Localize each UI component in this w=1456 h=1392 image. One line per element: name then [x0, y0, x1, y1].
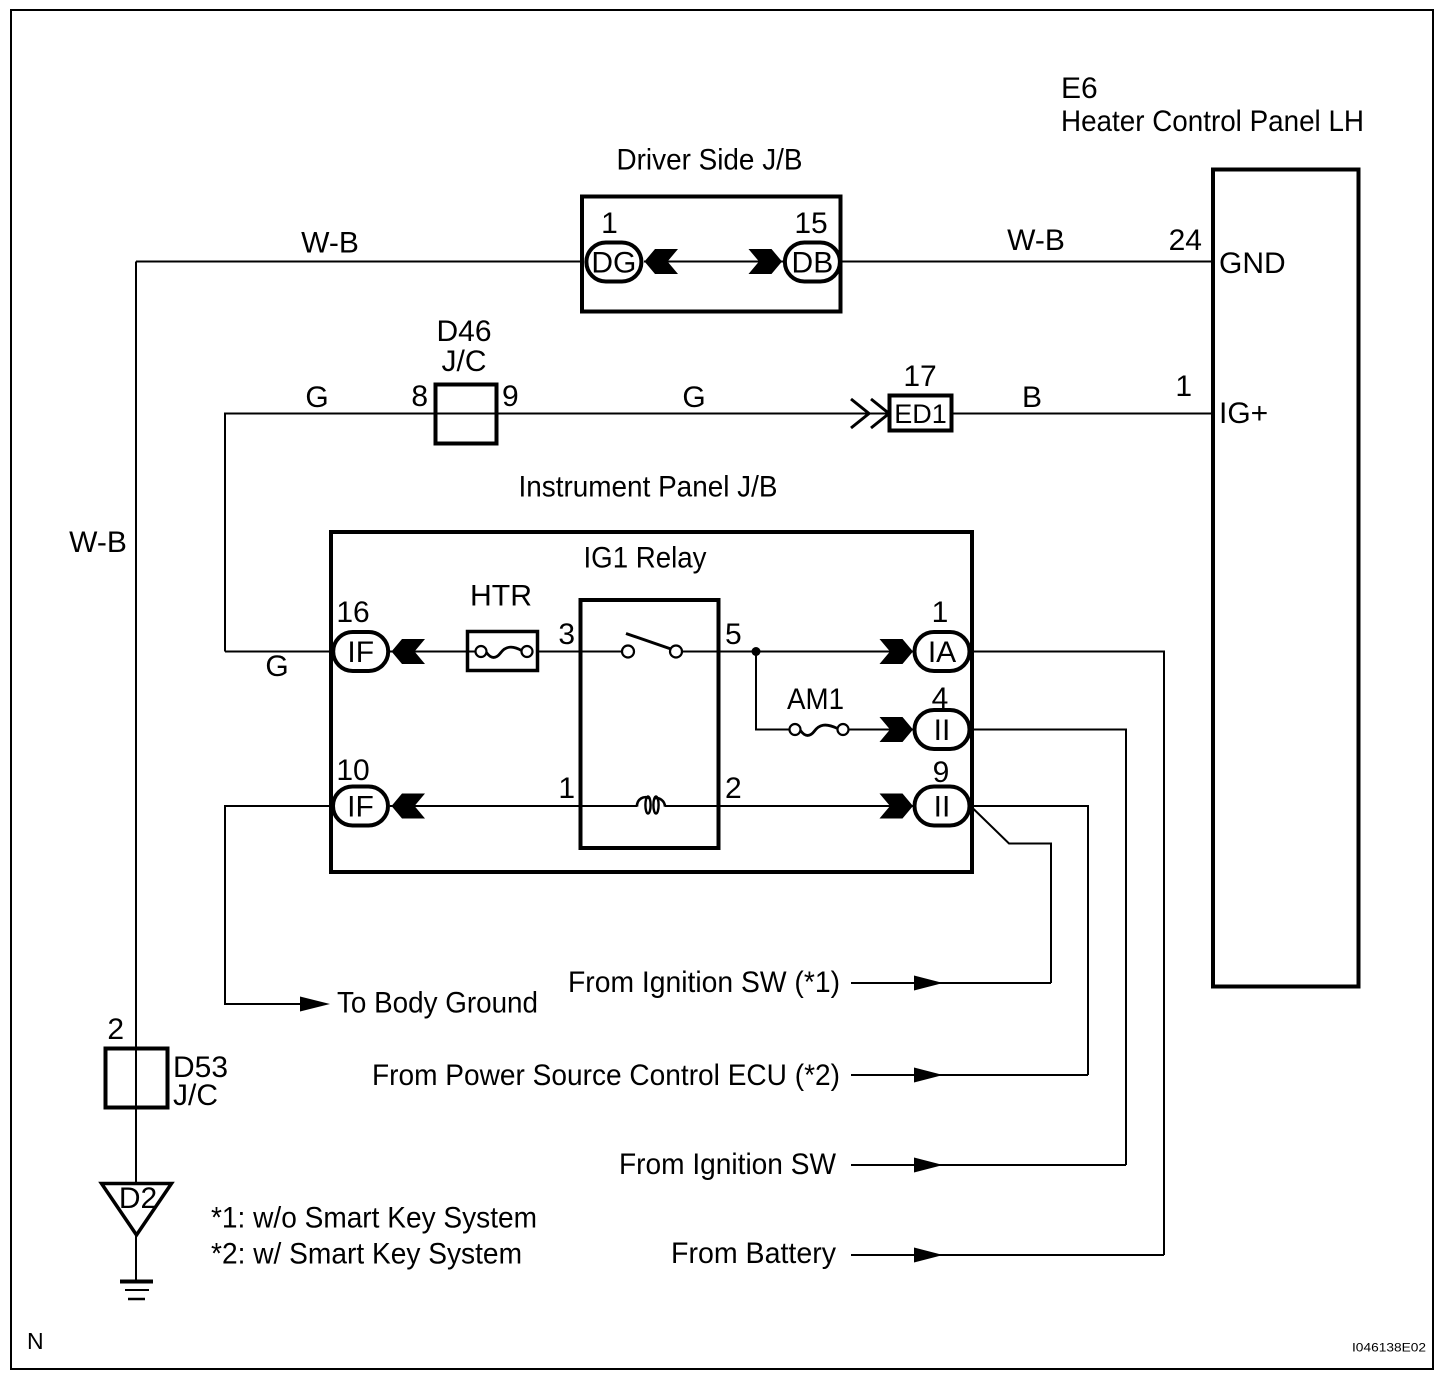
svg-text:3: 3: [558, 618, 575, 651]
svg-text:IG1 Relay: IG1 Relay: [584, 542, 707, 575]
svg-text:5: 5: [725, 618, 742, 651]
svg-text:10: 10: [336, 754, 369, 787]
svg-text:Driver Side J/B: Driver Side J/B: [617, 144, 803, 177]
svg-text:1: 1: [932, 596, 949, 629]
arrow chevron into IF16 (pointing left): [392, 639, 426, 664]
wire II9 to From Power Source Control ECU vertical: [970, 806, 1088, 1075]
wire From Ignition SW (*1) row: [851, 982, 1051, 984]
splice double chevron before ED1: [851, 399, 869, 428]
svg-text:II: II: [934, 791, 951, 824]
svg-text:Heater Control Panel LH: Heater Control Panel LH: [1061, 105, 1364, 138]
svg-text:G: G: [305, 381, 328, 414]
svg-text:G: G: [682, 381, 705, 414]
arrow From Power Source Control ECU (*2): [914, 1068, 943, 1083]
arrow chevron into IF10 (pointing left): [392, 794, 426, 819]
component Heater Control Panel LH box: [1213, 170, 1359, 987]
svg-text:GND: GND: [1219, 247, 1286, 280]
svg-text:G: G: [265, 650, 288, 683]
svg-text:From Ignition SW: From Ignition SW: [619, 1148, 837, 1181]
svg-text:D46: D46: [436, 315, 491, 348]
junction dot node: [752, 647, 761, 656]
wire D2 to ground: [135, 1235, 137, 1281]
svg-text:From Ignition SW (*1): From Ignition SW (*1): [568, 966, 840, 999]
arrow From Ignition SW (*1): [914, 976, 943, 991]
connector IA oval: [915, 632, 970, 671]
arrow chevron into IA (pointing right): [880, 639, 914, 664]
fuse HTR element: [476, 646, 487, 657]
ground symbol: [120, 1280, 153, 1284]
svg-text:8: 8: [411, 380, 428, 413]
wire G into IF16: [225, 651, 332, 653]
svg-text:ED1: ED1: [894, 399, 947, 429]
arrow From Ignition SW: [914, 1158, 943, 1173]
svg-text:N: N: [27, 1328, 44, 1354]
component Driver Side J/B box: [582, 197, 841, 312]
component Instrument Panel J/B box: [331, 532, 972, 872]
wire G left segment: [225, 414, 435, 652]
connector DG oval: [586, 243, 641, 282]
arrow From Battery: [914, 1248, 943, 1263]
relay switch contact left: [622, 646, 634, 658]
wire From Battery row: [851, 1254, 1164, 1256]
svg-text:From Battery: From Battery: [671, 1237, 836, 1270]
svg-text:9: 9: [933, 756, 950, 789]
svg-text:To Body Ground: To Body Ground: [337, 987, 538, 1020]
fuse HTR box: [468, 632, 538, 671]
wire IF16 to HTR: [390, 651, 477, 653]
svg-text:1: 1: [1175, 370, 1192, 403]
connector II pin4 oval: [915, 710, 970, 749]
svg-text:*2: w/ Smart Key System: *2: w/ Smart Key System: [211, 1238, 522, 1271]
svg-text:IG+: IG+: [1219, 397, 1268, 430]
svg-text:W-B: W-B: [69, 526, 127, 559]
svg-text:17: 17: [903, 360, 936, 393]
svg-text:16: 16: [336, 596, 369, 629]
svg-text:24: 24: [1169, 224, 1202, 257]
svg-text:I046138E02: I046138E02: [1352, 1341, 1426, 1355]
component IG1 Relay box: [581, 600, 719, 848]
svg-text:IA: IA: [928, 636, 956, 669]
svg-text:From Power Source Control ECU: From Power Source Control ECU (*2): [372, 1059, 840, 1092]
relay switch blade: [626, 634, 671, 650]
wire II4 to From Ignition SW vertical: [970, 730, 1126, 1166]
arrow chevron into II9 (pointing right): [880, 794, 914, 819]
svg-text:B: B: [1022, 381, 1042, 414]
svg-text:2: 2: [107, 1013, 124, 1046]
connector IF pin10 oval: [333, 787, 388, 826]
svg-text:2: 2: [725, 772, 742, 805]
svg-text:W-B: W-B: [301, 227, 359, 260]
relay switch contact right: [670, 646, 682, 658]
wire coil row left (IF10 to relay pin 1): [390, 805, 637, 807]
arrow chevron into DG (pointing left): [645, 249, 679, 274]
svg-text:*1: w/o Smart Key System: *1: w/o Smart Key System: [211, 1202, 537, 1235]
wire IA to From Battery vertical: [970, 652, 1164, 1256]
connector ED1 box: [890, 396, 952, 431]
junction D53 J/C box: [106, 1049, 168, 1108]
wire W-B left (to DG): [136, 261, 583, 263]
junction D46 J/C box: [436, 385, 497, 444]
relay coil element: [637, 797, 650, 807]
wire W-B vertical: [135, 262, 137, 1183]
svg-text:D2: D2: [119, 1182, 157, 1215]
svg-text:9: 9: [502, 380, 519, 413]
wire HTR to relay pin 3: [537, 651, 622, 653]
wire From Power Source Control ECU (*2) row: [851, 1074, 1088, 1076]
svg-text:DB: DB: [792, 247, 834, 280]
wire relay pin 2 to II9: [665, 805, 913, 807]
connector DB oval: [785, 243, 840, 282]
svg-text:J/C: J/C: [442, 345, 487, 378]
svg-text:HTR: HTR: [470, 580, 532, 613]
wire B segment: [953, 413, 1211, 415]
svg-text:Instrument Panel J/B: Instrument Panel J/B: [519, 471, 778, 504]
svg-text:II: II: [934, 714, 951, 747]
svg-text:E6: E6: [1061, 72, 1098, 105]
wire G mid segment: [435, 413, 888, 415]
ground connector D2 triangle: [102, 1184, 172, 1236]
arrow chevron into II4 (pointing right): [880, 717, 914, 742]
fuse AM1 element: [790, 724, 801, 735]
svg-text:IF: IF: [347, 791, 374, 824]
svg-text:W-B: W-B: [1007, 224, 1065, 257]
svg-text:DG: DG: [591, 247, 636, 280]
svg-text:1: 1: [558, 772, 575, 805]
svg-text:IF: IF: [347, 636, 374, 669]
arrow chevron into DB (pointing right): [749, 249, 783, 274]
connector II pin9 oval: [915, 787, 970, 826]
svg-text:1: 1: [601, 207, 618, 240]
wire From Ignition SW row: [851, 1164, 1126, 1166]
svg-text:AM1: AM1: [787, 683, 844, 716]
connector IF pin16 oval: [333, 632, 388, 671]
wire junction to AM1 fuse: [756, 652, 790, 730]
wire AM1 to II4: [848, 729, 913, 731]
svg-text:15: 15: [794, 207, 827, 240]
wire IF10 to body ground: [225, 806, 331, 1004]
wire W-B right (DB to GND pin 24): [841, 261, 1211, 263]
wire between DG and DB: [644, 261, 783, 263]
arrow to body ground: [300, 997, 330, 1012]
wire relay pin 5 to junction: [682, 651, 913, 653]
wire II9 diagonal to From Ignition SW (*1) vertical: [971, 807, 1051, 984]
svg-text:J/C: J/C: [173, 1079, 218, 1112]
